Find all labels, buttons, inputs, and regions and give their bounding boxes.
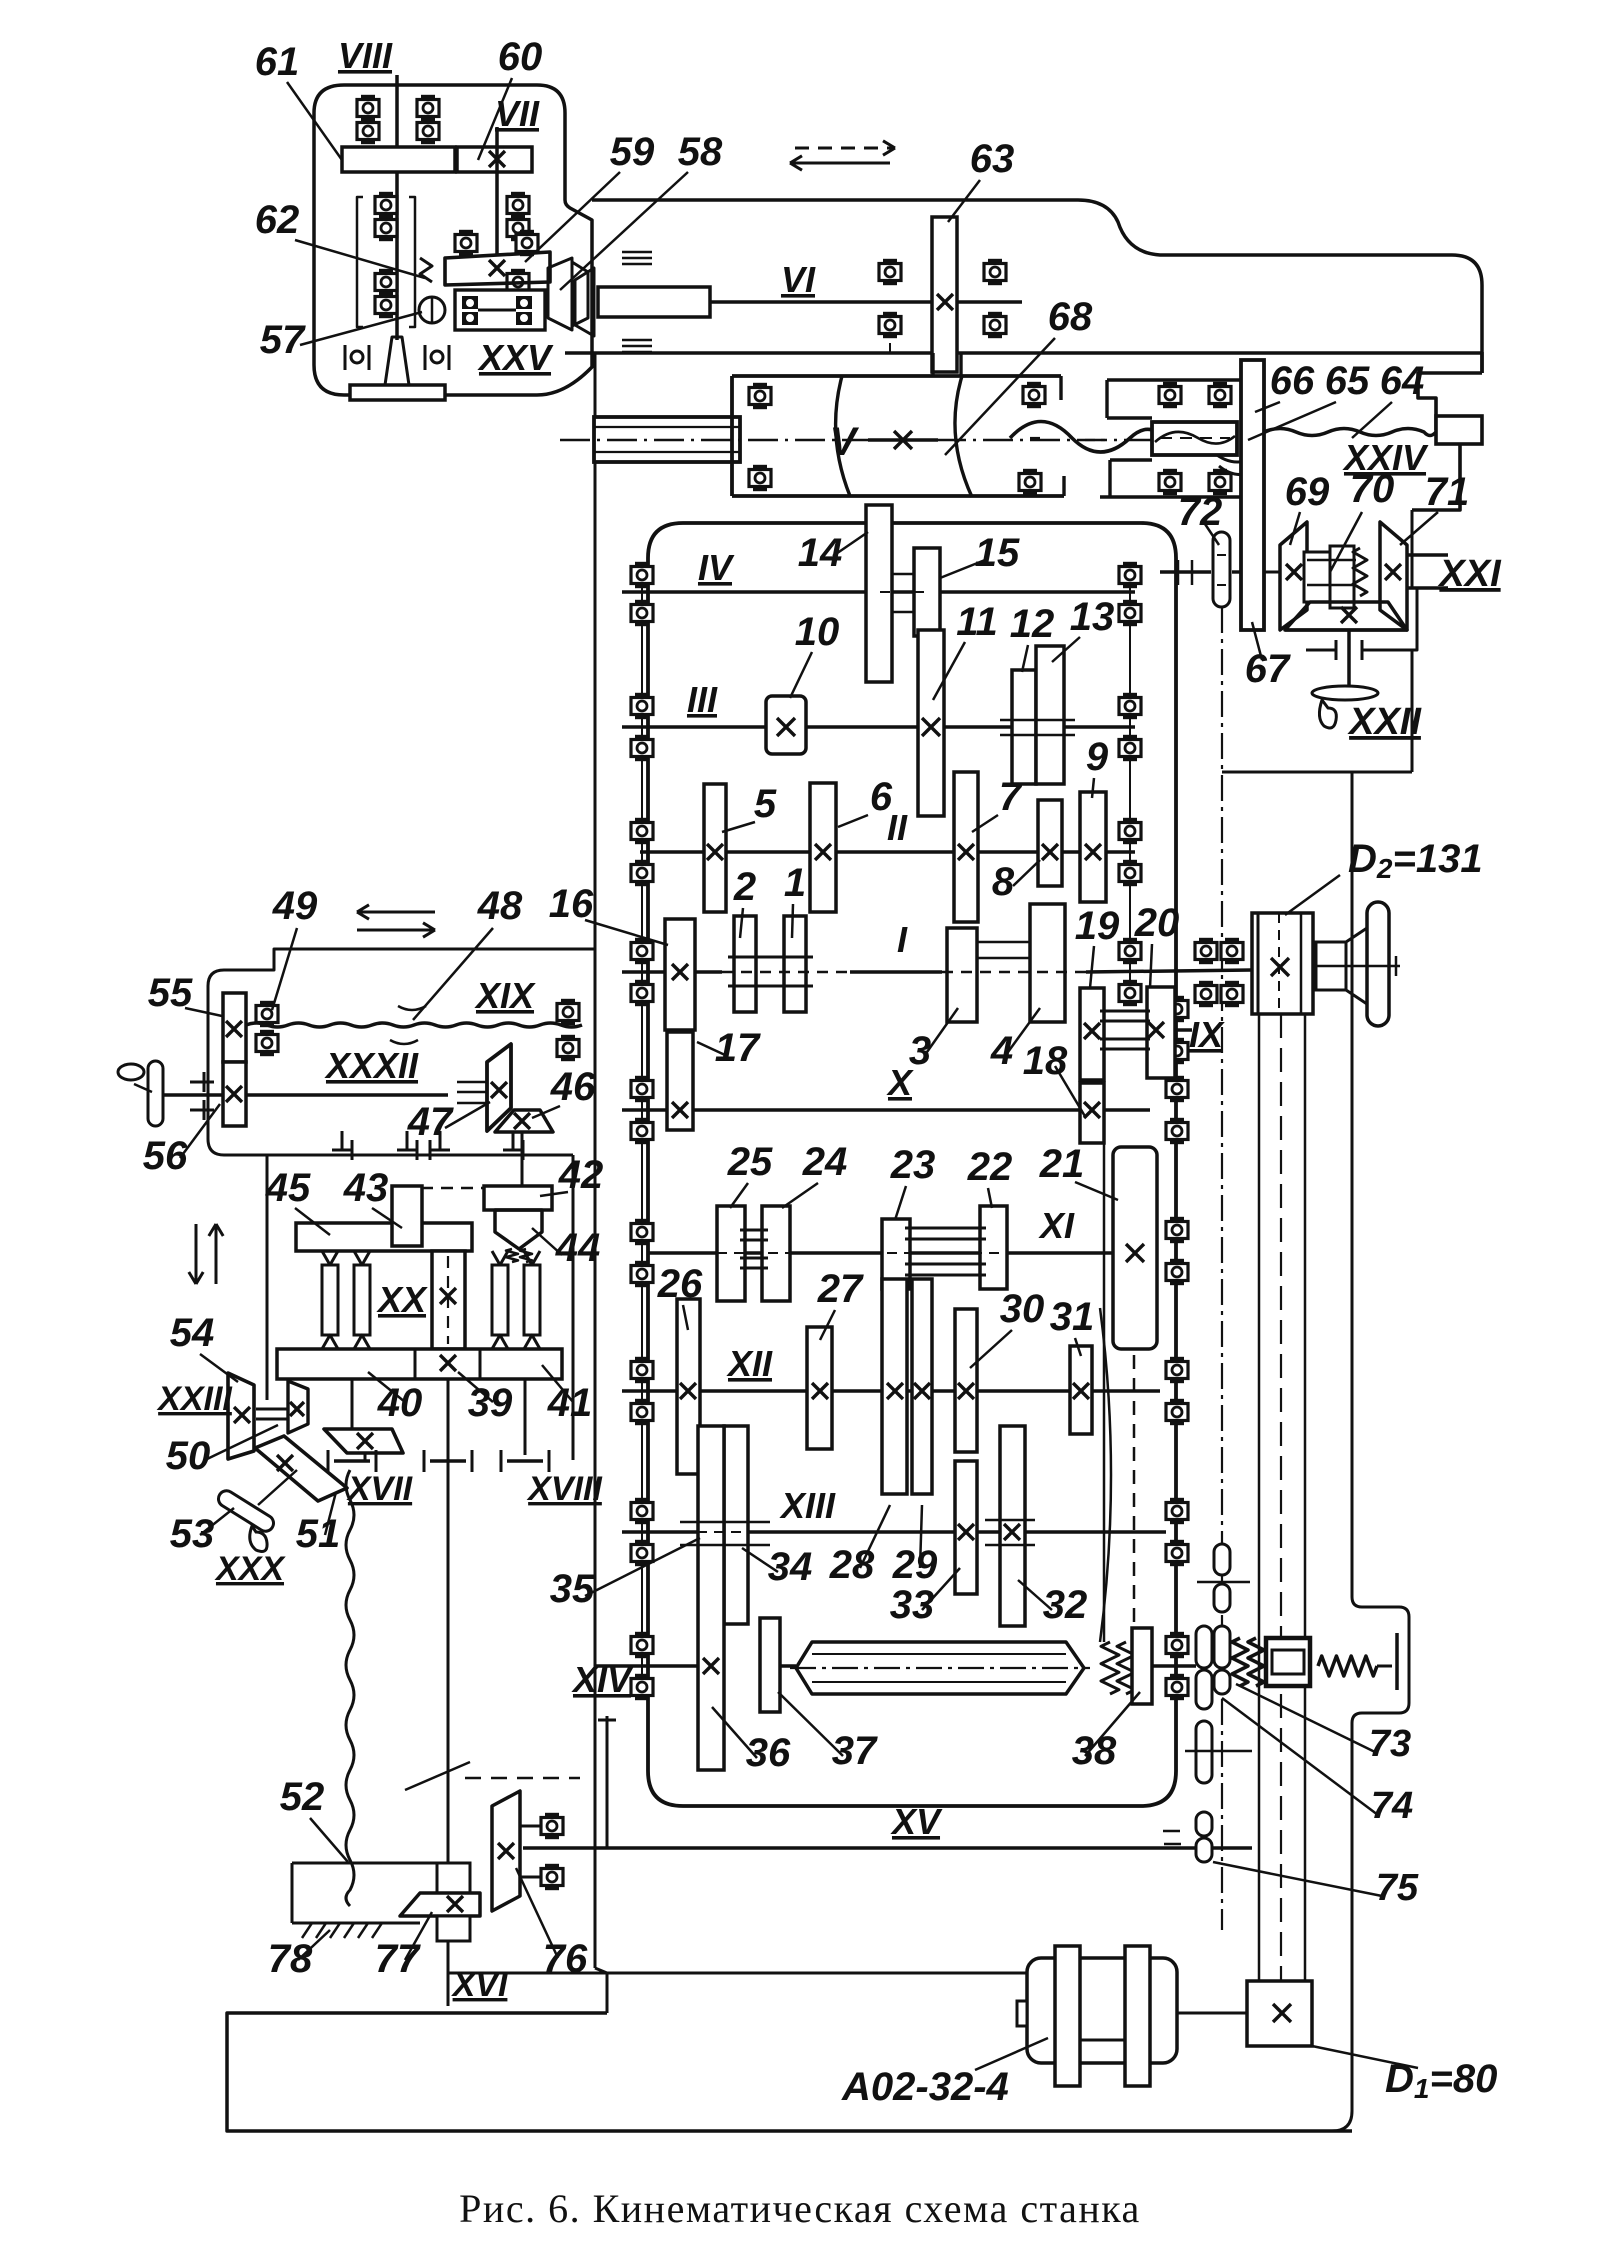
svg-text:63: 63: [970, 137, 1015, 181]
svg-text:61: 61: [255, 40, 300, 84]
svg-text:XXII: XXII: [1347, 701, 1422, 743]
svg-text:38: 38: [1072, 1729, 1117, 1773]
svg-text:XXX: XXX: [214, 1550, 286, 1588]
svg-text:30: 30: [1000, 1287, 1045, 1331]
svg-text:50: 50: [166, 1434, 211, 1478]
svg-text:XXXII: XXXII: [324, 1045, 419, 1086]
svg-text:78: 78: [268, 1937, 313, 1981]
svg-text:57: 57: [260, 318, 306, 362]
svg-text:23: 23: [890, 1143, 936, 1187]
svg-text:46: 46: [550, 1065, 596, 1109]
svg-text:9: 9: [1086, 735, 1109, 779]
svg-text:52: 52: [280, 1775, 325, 1819]
svg-text:1: 1: [784, 861, 806, 905]
svg-text:2: 2: [733, 865, 756, 909]
svg-text:21: 21: [1039, 1142, 1085, 1186]
svg-text:D2=131: D2=131: [1348, 837, 1483, 884]
svg-text:58: 58: [678, 130, 723, 174]
svg-text:10: 10: [795, 610, 840, 654]
svg-text:27: 27: [817, 1267, 864, 1311]
svg-text:5: 5: [754, 782, 777, 826]
svg-text:69: 69: [1285, 470, 1330, 514]
svg-text:54: 54: [170, 1311, 215, 1355]
svg-text:VI: VI: [781, 259, 816, 300]
svg-text:29: 29: [892, 1543, 938, 1587]
svg-text:XIX: XIX: [474, 975, 536, 1016]
svg-text:35: 35: [550, 1567, 595, 1611]
svg-text:22: 22: [967, 1145, 1013, 1189]
svg-text:XII: XII: [726, 1343, 773, 1384]
svg-text:I: I: [897, 919, 908, 960]
svg-text:20: 20: [1134, 901, 1180, 945]
svg-text:19: 19: [1075, 904, 1120, 948]
svg-text:XVI: XVI: [451, 1966, 509, 2004]
svg-text:VII: VII: [495, 93, 540, 134]
svg-text:XVIII: XVIII: [526, 1470, 603, 1508]
svg-text:24: 24: [802, 1140, 848, 1184]
svg-text:8: 8: [992, 860, 1015, 904]
svg-text:41: 41: [547, 1381, 593, 1425]
svg-text:60: 60: [498, 35, 543, 79]
svg-text:IX: IX: [1189, 1014, 1225, 1055]
svg-text:XI: XI: [1038, 1205, 1075, 1246]
svg-text:34: 34: [768, 1545, 813, 1589]
svg-text:42: 42: [558, 1153, 604, 1197]
svg-text:48: 48: [477, 884, 523, 928]
svg-text:XXIV: XXIV: [1342, 437, 1429, 478]
svg-text:XXIII: XXIII: [156, 1380, 233, 1418]
svg-text:XVII: XVII: [346, 1470, 414, 1508]
svg-text:15: 15: [975, 531, 1020, 575]
svg-text:31: 31: [1050, 1295, 1095, 1339]
svg-text:12: 12: [1010, 602, 1055, 646]
svg-text:D1=80: D1=80: [1385, 2057, 1497, 2104]
svg-text:VIII: VIII: [338, 35, 393, 76]
svg-text:11: 11: [956, 600, 998, 644]
svg-text:V: V: [830, 420, 860, 464]
svg-text:66: 66: [1270, 359, 1315, 403]
svg-text:III: III: [687, 679, 718, 720]
svg-text:26: 26: [657, 1262, 703, 1306]
svg-text:47: 47: [407, 1100, 454, 1144]
svg-text:25: 25: [727, 1140, 773, 1184]
svg-text:53: 53: [170, 1512, 215, 1556]
svg-text:74: 74: [1371, 1785, 1413, 1827]
svg-text:XXV: XXV: [477, 337, 554, 378]
svg-text:А02-32-4: А02-32-4: [841, 2065, 1009, 2109]
svg-text:Рис. 6. Кинематическая схема с: Рис. 6. Кинематическая схема станка: [459, 2186, 1141, 2231]
svg-text:72: 72: [1178, 490, 1223, 534]
svg-text:73: 73: [1369, 1723, 1411, 1765]
svg-text:40: 40: [377, 1381, 423, 1425]
svg-text:XV: XV: [890, 1801, 943, 1842]
svg-text:17: 17: [715, 1026, 761, 1070]
svg-text:76: 76: [543, 1937, 588, 1981]
svg-text:64: 64: [1380, 359, 1425, 403]
svg-text:13: 13: [1070, 595, 1115, 639]
svg-text:XXI: XXI: [1437, 553, 1502, 595]
svg-text:6: 6: [870, 775, 893, 819]
svg-text:71: 71: [1425, 470, 1470, 514]
svg-text:59: 59: [610, 130, 655, 174]
svg-text:75: 75: [1376, 1867, 1419, 1909]
svg-text:45: 45: [265, 1166, 311, 1210]
svg-text:XX: XX: [376, 1279, 428, 1320]
svg-text:49: 49: [272, 884, 318, 928]
svg-text:51: 51: [296, 1512, 341, 1556]
svg-text:XIII: XIII: [779, 1485, 836, 1526]
svg-text:32: 32: [1043, 1583, 1088, 1627]
svg-text:67: 67: [1245, 647, 1291, 691]
svg-text:XIV: XIV: [571, 1659, 634, 1700]
svg-text:65: 65: [1325, 359, 1370, 403]
svg-text:68: 68: [1048, 295, 1093, 339]
svg-text:7: 7: [999, 775, 1023, 819]
svg-text:IV: IV: [698, 547, 735, 588]
svg-text:62: 62: [255, 198, 300, 242]
svg-text:44: 44: [555, 1226, 601, 1270]
svg-text:43: 43: [343, 1166, 389, 1210]
